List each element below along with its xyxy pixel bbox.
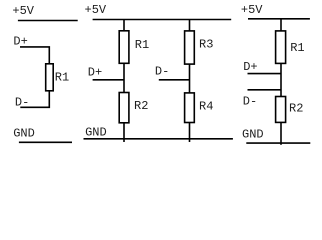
svg-text:D+: D+: [243, 60, 257, 74]
+5V rail wire (circuit 3): [248, 18, 310, 20]
wire R1 bottom to D- (circuit 1): [20, 91, 49, 108]
svg-text:D-: D-: [15, 95, 29, 109]
+5V rail wire (circuit 2): [93, 19, 232, 21]
GND rail wire (circuit 2): [84, 138, 233, 140]
net label +5V (circuit 1): [12, 4, 34, 18]
svg-text:+5V: +5V: [12, 4, 34, 18]
value label R4 (circuit 2): [199, 100, 213, 114]
svg-text:GND: GND: [85, 126, 107, 140]
node D+ label (circuit 2): [88, 65, 102, 79]
GND rail wire (circuit 3): [246, 142, 310, 144]
resistor R2 (circuit 2): [119, 93, 129, 123]
resistor R1 (circuit 1): [46, 64, 54, 91]
GND rail wire (circuit 1): [19, 141, 72, 143]
value label R2 (circuit 3): [289, 101, 303, 115]
node D- label (circuit 3): [243, 94, 257, 108]
node D- label (circuit 1): [15, 95, 29, 109]
wire +5V rail to R1 top (circuit 3): [280, 19, 282, 31]
wire R1 bottom through D+/D- taps to R2 top (circuit 3): [280, 63, 282, 96]
wire R2 bottom to GND rail (circuit 2): [123, 123, 125, 142]
svg-text:D-: D-: [155, 64, 169, 78]
svg-text:+5V: +5V: [85, 3, 107, 17]
resistor R2 (circuit 3): [276, 97, 286, 123]
value label R3 (circuit 2): [199, 38, 213, 52]
+5V rail wire (circuit 1): [18, 20, 78, 22]
resistor R1 (circuit 2): [119, 31, 129, 64]
wire R1 bottom to R2 top through D+ node (circuit 2): [123, 63, 125, 92]
value label R2 (circuit 2): [134, 99, 148, 113]
wire +5V rail to R1 top (circuit 2): [123, 20, 125, 32]
wire R3 bottom to R4 top through D- node (circuit 2): [189, 64, 191, 93]
svg-text:R2: R2: [289, 101, 303, 115]
wire R4 bottom to GND rail (circuit 2): [189, 123, 191, 143]
svg-text:D+: D+: [88, 65, 102, 79]
svg-text:R1: R1: [290, 41, 304, 55]
svg-text:GND: GND: [13, 126, 35, 140]
svg-text:R1: R1: [55, 71, 69, 85]
svg-text:GND: GND: [242, 128, 264, 142]
wire D- stub to divider midpoint (circuit 2): [159, 79, 190, 81]
wire D+ to R1 top (circuit 1): [20, 47, 49, 64]
ground label GND (circuit 1): [13, 126, 35, 140]
ground label GND (circuit 2): [85, 126, 107, 140]
svg-text:+5V: +5V: [241, 3, 263, 17]
node D+ label (circuit 1): [13, 35, 27, 49]
ground label GND (circuit 3): [242, 128, 264, 142]
wire D+ stub to divider midpoint (circuit 2): [93, 79, 124, 81]
wire D+ stub to divider node (circuit 3): [248, 73, 282, 75]
net label +5V (circuit 2): [85, 3, 107, 17]
svg-text:R4: R4: [199, 100, 213, 114]
value label R1 (circuit 2): [135, 38, 149, 52]
resistor R4 (circuit 2): [185, 93, 195, 123]
svg-text:R2: R2: [134, 99, 148, 113]
wire R2 bottom to GND rail (circuit 3): [280, 122, 282, 144]
value label R1 (circuit 3): [290, 41, 304, 55]
svg-text:R3: R3: [199, 38, 213, 52]
net label +5V (circuit 3): [241, 3, 263, 17]
wire +5V rail to R3 top (circuit 2): [189, 20, 191, 32]
node D+ label (circuit 3): [243, 60, 257, 74]
resistor R3 (circuit 2): [185, 31, 195, 64]
svg-text:R1: R1: [135, 38, 149, 52]
resistor R1 (circuit 3): [276, 31, 286, 64]
wire D- stub to divider node (circuit 3): [248, 89, 282, 91]
node D- label (circuit 2): [155, 64, 169, 78]
svg-text:D-: D-: [243, 94, 257, 108]
value label R1 (circuit 1): [55, 71, 69, 85]
